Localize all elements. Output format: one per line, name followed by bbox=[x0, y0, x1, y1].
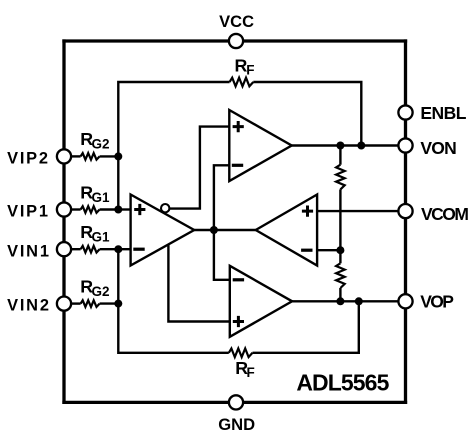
node VON feedback junction bbox=[357, 142, 365, 150]
wire RF top rail left segment bbox=[118, 82, 229, 156]
bottom amp + symbol bbox=[233, 316, 244, 327]
resistor lower output divider bbox=[336, 263, 345, 288]
pin GND bbox=[229, 395, 243, 409]
resistor RG1 bbox=[81, 206, 100, 213]
main amp - symbol bbox=[133, 248, 144, 251]
wire RF bottom rail right segment bbox=[253, 301, 359, 353]
resistor upper output divider lead wires bbox=[339, 146, 341, 165]
svg-text:VCC: VCC bbox=[219, 13, 254, 31]
resistor RG2 bbox=[81, 153, 100, 160]
svg-text:F: F bbox=[246, 63, 254, 78]
resistor RG2 bbox=[81, 300, 100, 307]
wire middle amp - input bbox=[317, 249, 340, 251]
wire inverting feedback column bbox=[214, 165, 230, 279]
wire GND bottom rail bbox=[62, 401, 407, 404]
pin VCOM bbox=[398, 204, 412, 218]
wire main amp lower tap to bottom amp + input bbox=[168, 243, 229, 322]
pin VIP2 bbox=[57, 149, 71, 163]
svg-text:ADL5565: ADL5565 bbox=[296, 370, 389, 396]
svg-text:VIP2: VIP2 bbox=[7, 149, 50, 167]
resistor upper output divider bbox=[336, 165, 345, 190]
node divider midpoint junction bbox=[336, 246, 344, 254]
resistor RF (bottom) bbox=[229, 349, 253, 358]
svg-text:VCOM: VCOM bbox=[421, 204, 468, 224]
pin VOP bbox=[398, 294, 412, 308]
wire left supply rail bbox=[62, 39, 65, 404]
svg-text:G2: G2 bbox=[92, 284, 110, 299]
resistor RG1 lead wires bbox=[71, 248, 81, 250]
wire VCC top rail bbox=[62, 39, 407, 42]
svg-text:VIN1: VIN1 bbox=[7, 242, 51, 260]
svg-text:VON: VON bbox=[420, 138, 456, 158]
wire VCOM line to middle amp + input bbox=[317, 210, 405, 212]
bottom amp - symbol bbox=[233, 278, 244, 281]
top amp + symbol bbox=[233, 121, 244, 132]
node VIP2/RG2 junction bbox=[114, 152, 122, 160]
inverter bubble on main amp bbox=[161, 204, 169, 212]
pin VCC bbox=[229, 34, 243, 48]
svg-text:G2: G2 bbox=[92, 137, 110, 152]
middle amp - symbol bbox=[301, 249, 312, 252]
svg-text:VOP: VOP bbox=[420, 292, 454, 312]
pin VIN1 bbox=[57, 242, 71, 256]
node VIN2/RG2 junction bbox=[114, 300, 122, 308]
wire RF top rail right segment bbox=[253, 82, 361, 146]
top amp - symbol bbox=[232, 164, 243, 167]
wire main amp output to middle amp bbox=[194, 229, 256, 231]
node - summing junction bbox=[114, 245, 122, 253]
op-amp main input amplifier bbox=[131, 195, 195, 266]
pin VON bbox=[398, 138, 412, 152]
node main amp output junction bbox=[210, 226, 218, 234]
svg-text:G1: G1 bbox=[92, 230, 111, 245]
resistor lower output divider lead wires bbox=[339, 250, 341, 263]
node VOP divider junction bbox=[336, 297, 344, 305]
pin VIN2 bbox=[57, 297, 71, 311]
op-amp bottom output amplifier bbox=[230, 266, 292, 337]
svg-text:VIP1: VIP1 bbox=[7, 203, 50, 221]
svg-text:GND: GND bbox=[218, 415, 255, 434]
resistor RG2 lead wires bbox=[71, 155, 81, 157]
node + summing junction bbox=[114, 206, 122, 214]
svg-text:F: F bbox=[247, 365, 255, 380]
wire RF bottom rail left segment bbox=[118, 304, 229, 353]
resistor RG2 lead wires bbox=[71, 302, 81, 304]
node VON divider junction bbox=[336, 142, 344, 150]
pin VIP1 bbox=[57, 202, 71, 216]
wire right supply rail bbox=[404, 39, 407, 404]
wire VIN1-VIN2 summing column bbox=[117, 249, 119, 303]
main amp + symbol bbox=[134, 204, 145, 215]
svg-text:G1: G1 bbox=[92, 190, 111, 205]
node VOP feedback junction bbox=[355, 297, 363, 305]
wire - input of main amp bbox=[118, 248, 130, 250]
pin ENBL bbox=[398, 105, 412, 119]
op-amp common-mode amplifier (points left) bbox=[256, 195, 317, 266]
svg-text:VIN2: VIN2 bbox=[7, 296, 51, 314]
wire VON output line bbox=[292, 144, 406, 146]
svg-text:ENBL: ENBL bbox=[420, 103, 466, 123]
op-amp top output amplifier bbox=[229, 110, 291, 181]
middle amp + symbol bbox=[302, 206, 313, 217]
wire + input of main amp bbox=[118, 208, 130, 210]
wire VOP output line bbox=[292, 300, 405, 302]
resistor RF (top) bbox=[230, 78, 254, 87]
resistor RG1 lead wires bbox=[71, 208, 81, 210]
resistor RG1 bbox=[81, 246, 100, 253]
wire bubble output to top amp + input bbox=[167, 127, 229, 209]
wire VIP2-VIP1 summing column bbox=[117, 156, 119, 209]
